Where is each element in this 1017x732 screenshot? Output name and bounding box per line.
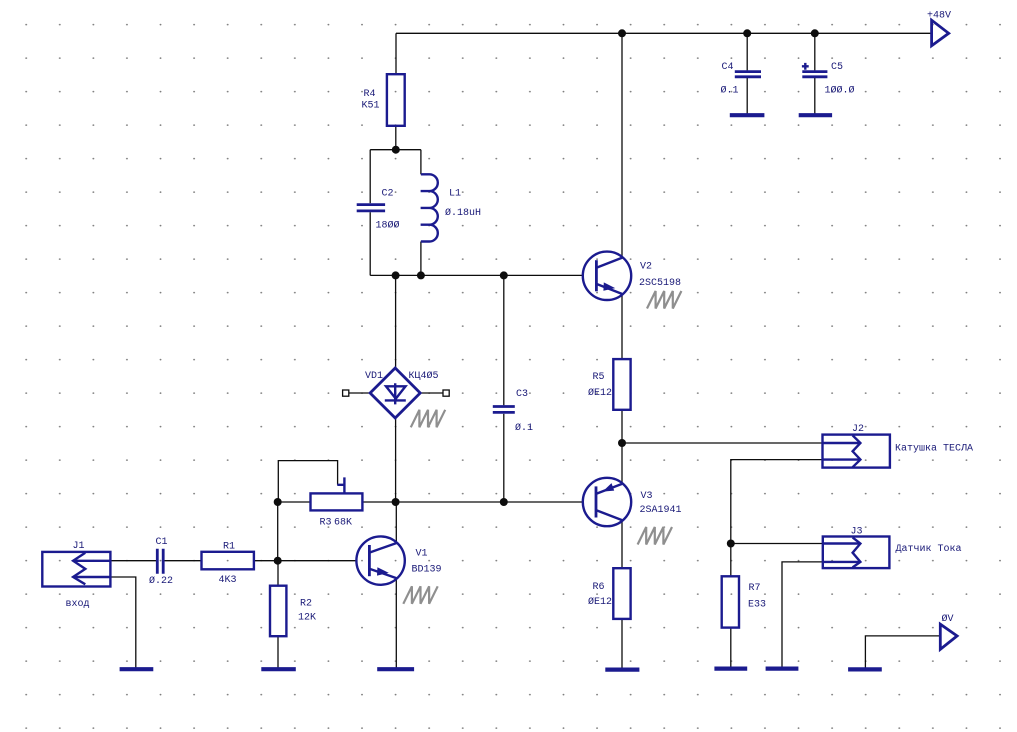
svg-text:Ø.1: Ø.1: [721, 85, 739, 97]
svg-text:Ø.22: Ø.22: [149, 575, 173, 587]
bridge rectifier VD1: [365, 368, 439, 418]
svg-text:V3: V3: [641, 491, 653, 502]
svg-text:J3: J3: [851, 527, 863, 538]
wire mid line left of R3: [278, 501, 311, 503]
svg-text:ØV: ØV: [942, 613, 954, 625]
heatsink mark V2: [647, 291, 681, 309]
wire C2 branch upper: [369, 150, 371, 204]
svg-text:C2: C2: [382, 189, 394, 200]
wire L1 branch upper: [420, 150, 422, 175]
svg-text:J1: J1: [73, 541, 85, 552]
transistor V2: [583, 252, 681, 300]
svg-text:C1: C1: [156, 537, 168, 548]
capacitor C4: [721, 62, 762, 97]
wire C4 top lead: [746, 33, 748, 70]
junction below R4: [392, 146, 400, 154]
svg-text:C3: C3: [516, 389, 528, 400]
svg-text:R2: R2: [300, 599, 312, 610]
wire R7 top lead: [730, 544, 732, 577]
svg-text:R3: R3: [320, 518, 332, 529]
svg-text:K51: K51: [362, 101, 380, 112]
resistor R7: [722, 576, 766, 627]
svg-text:C5: C5: [831, 62, 843, 73]
svg-text:J2: J2: [852, 424, 864, 435]
svg-text:1ØØ.Ø: 1ØØ.Ø: [825, 85, 855, 97]
wire C3 bottom lead: [503, 414, 505, 502]
resistor R6: [588, 568, 631, 619]
wire R1 to node561: [254, 560, 278, 562]
svg-text:Ø.18uH: Ø.18uH: [445, 207, 481, 219]
ground under J1: [120, 667, 154, 671]
svg-text:Датчик Тока: Датчик Тока: [896, 544, 962, 555]
wire tank bottom to V2 base: [370, 274, 583, 276]
inductor L1: [421, 174, 481, 241]
junction node502 at VD1: [392, 498, 400, 506]
wire VD1 left AC lead: [349, 392, 370, 394]
junction top rail at V2: [618, 29, 626, 37]
connector J1: [42, 541, 110, 610]
resistor R5: [588, 359, 631, 410]
transistor V3: [583, 478, 682, 526]
wire node561 to V1 base: [278, 560, 357, 562]
wire R2 bottom lead: [277, 636, 279, 669]
wire J3 pin2 to ground: [782, 562, 823, 669]
svg-text:VD1: VD1: [365, 371, 383, 382]
svg-text:ØE12: ØE12: [588, 596, 612, 608]
wire +48V top rail: [396, 32, 932, 34]
wire node275 to VD1 top: [395, 275, 397, 368]
wire R5 to V3 top: [621, 410, 623, 484]
power port +48V: [927, 11, 951, 46]
ground under R6: [605, 667, 639, 671]
wire R7 bottom lead: [730, 628, 732, 669]
svg-text:ØE12: ØE12: [588, 387, 612, 399]
wire node to J3 pin1: [731, 543, 823, 545]
junction node275 at VD1: [392, 271, 400, 279]
capacitor C5 polarized: [802, 62, 855, 97]
wire VD1 bottom to node502: [395, 418, 397, 502]
wire V1 emitter to ground: [395, 578, 397, 669]
junction node502 left: [274, 498, 282, 506]
wire R4 bottom lead: [395, 126, 397, 150]
ground under C5: [799, 113, 832, 117]
wire R4 top lead: [395, 33, 397, 74]
svg-text:Катушка ТЕСЛА: Катушка ТЕСЛА: [895, 444, 973, 455]
svg-text:68K: 68K: [334, 518, 352, 529]
junction node502 at C3: [500, 498, 508, 506]
wire C2 branch lower: [369, 212, 371, 275]
svg-text:R5: R5: [593, 372, 605, 383]
junction top rail at C5: [811, 29, 819, 37]
wire C5 top lead: [814, 33, 816, 70]
svg-text:E33: E33: [748, 600, 766, 611]
wire V2 emitter to R5: [621, 294, 623, 359]
ground under R2: [261, 667, 296, 671]
svg-text:2SC5198: 2SC5198: [639, 278, 681, 289]
svg-text:R4: R4: [364, 89, 376, 100]
heatsink mark V3: [638, 527, 672, 545]
junction J2-J3-R7 node: [727, 540, 735, 548]
potentiometer R3: [311, 477, 363, 528]
svg-text:C4: C4: [722, 62, 734, 73]
junction node561 at V1 base: [274, 557, 282, 565]
resistor R2: [270, 586, 316, 637]
svg-text:12K: 12K: [298, 613, 316, 624]
svg-text:+48V: +48V: [927, 11, 951, 22]
heatsink mark VD1: [411, 410, 445, 428]
wire 0V to ground: [865, 636, 940, 670]
heatsink mark V1: [403, 586, 437, 604]
wire tank top: [370, 149, 421, 151]
wire R2 top lead: [277, 561, 279, 586]
connector J2: [823, 424, 890, 468]
wire R6 to ground: [621, 619, 623, 670]
wire mid line R3 to V3 base: [362, 501, 583, 503]
capacitor C1: [149, 537, 173, 587]
svg-text:L1: L1: [449, 189, 461, 200]
VD1 AC terminal right: [443, 390, 449, 396]
wire V2 collector to rail: [621, 33, 623, 257]
svg-text:18ØØ: 18ØØ: [376, 220, 400, 232]
junction node275 at L1: [417, 271, 425, 279]
ground under V1: [377, 667, 414, 671]
transistor V1: [356, 536, 441, 584]
wire J2 pin2 down left: [731, 460, 823, 544]
svg-text:R1: R1: [223, 542, 235, 553]
capacitor C3: [493, 389, 533, 434]
wire J1 pin1 to C1: [110, 560, 156, 562]
svg-text:R7: R7: [749, 583, 761, 594]
capacitor C2: [357, 189, 400, 232]
wire L1 branch lower: [420, 242, 422, 276]
ground under C4: [730, 113, 765, 117]
wire C1 to R1: [165, 560, 202, 562]
wire VD1 right AC lead: [420, 392, 443, 394]
svg-text:4K3: 4K3: [219, 575, 237, 586]
ground under 0V: [848, 667, 882, 671]
wire node502 to V1 collector: [395, 502, 397, 543]
ground under J3: [766, 666, 799, 670]
svg-text:вход: вход: [66, 599, 90, 610]
wire output node to J2 pin1: [622, 442, 823, 444]
svg-text:КЦ4Ø5: КЦ4Ø5: [409, 370, 439, 382]
svg-text:V1: V1: [416, 549, 428, 560]
junction output node at R5: [618, 439, 626, 447]
wire C3 top lead: [503, 275, 505, 405]
svg-text:V2: V2: [640, 262, 652, 273]
svg-text:R6: R6: [593, 582, 605, 593]
junction top rail at C4: [743, 29, 751, 37]
svg-text:BD139: BD139: [412, 565, 442, 576]
VD1 AC terminal left: [343, 390, 349, 396]
wire V3 bottom to R6: [621, 520, 623, 568]
svg-text:2SA1941: 2SA1941: [640, 505, 682, 516]
wire left vertical node502-node561: [277, 502, 279, 561]
resistor R1: [202, 542, 254, 587]
ground under R7: [714, 666, 747, 670]
wire C5 bottom lead: [814, 78, 816, 116]
wire J1 pin2 to ground: [110, 577, 135, 669]
resistor R4: [362, 74, 405, 126]
junction node275 at C3: [500, 271, 508, 279]
connector J3: [823, 527, 890, 569]
power port 0V: [940, 613, 957, 649]
wire C4 bottom lead: [746, 78, 748, 116]
wire R3 wiper loop: [278, 461, 337, 502]
svg-text:Ø.1: Ø.1: [515, 422, 533, 434]
